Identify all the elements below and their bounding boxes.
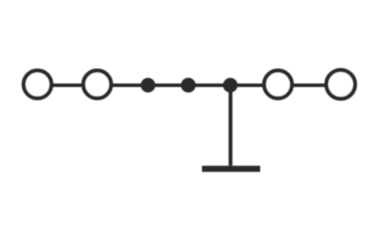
terminal 3 (right clamp circle) <box>264 71 292 99</box>
node: bridge point 3 (junction to PE) <box>223 78 238 93</box>
terminal 4 (right clamp circle) <box>326 70 355 99</box>
terminal 1 (left clamp circle) <box>24 71 52 99</box>
wire: main horizontal conductor <box>38 83 341 87</box>
terminal 2 (left clamp circle) <box>83 71 111 99</box>
node: bridge point 2 <box>181 78 196 93</box>
node: bridge point 1 <box>141 78 156 93</box>
ground: PE foot contact bar <box>202 166 260 172</box>
wire: vertical drop to PE contact <box>229 85 233 166</box>
